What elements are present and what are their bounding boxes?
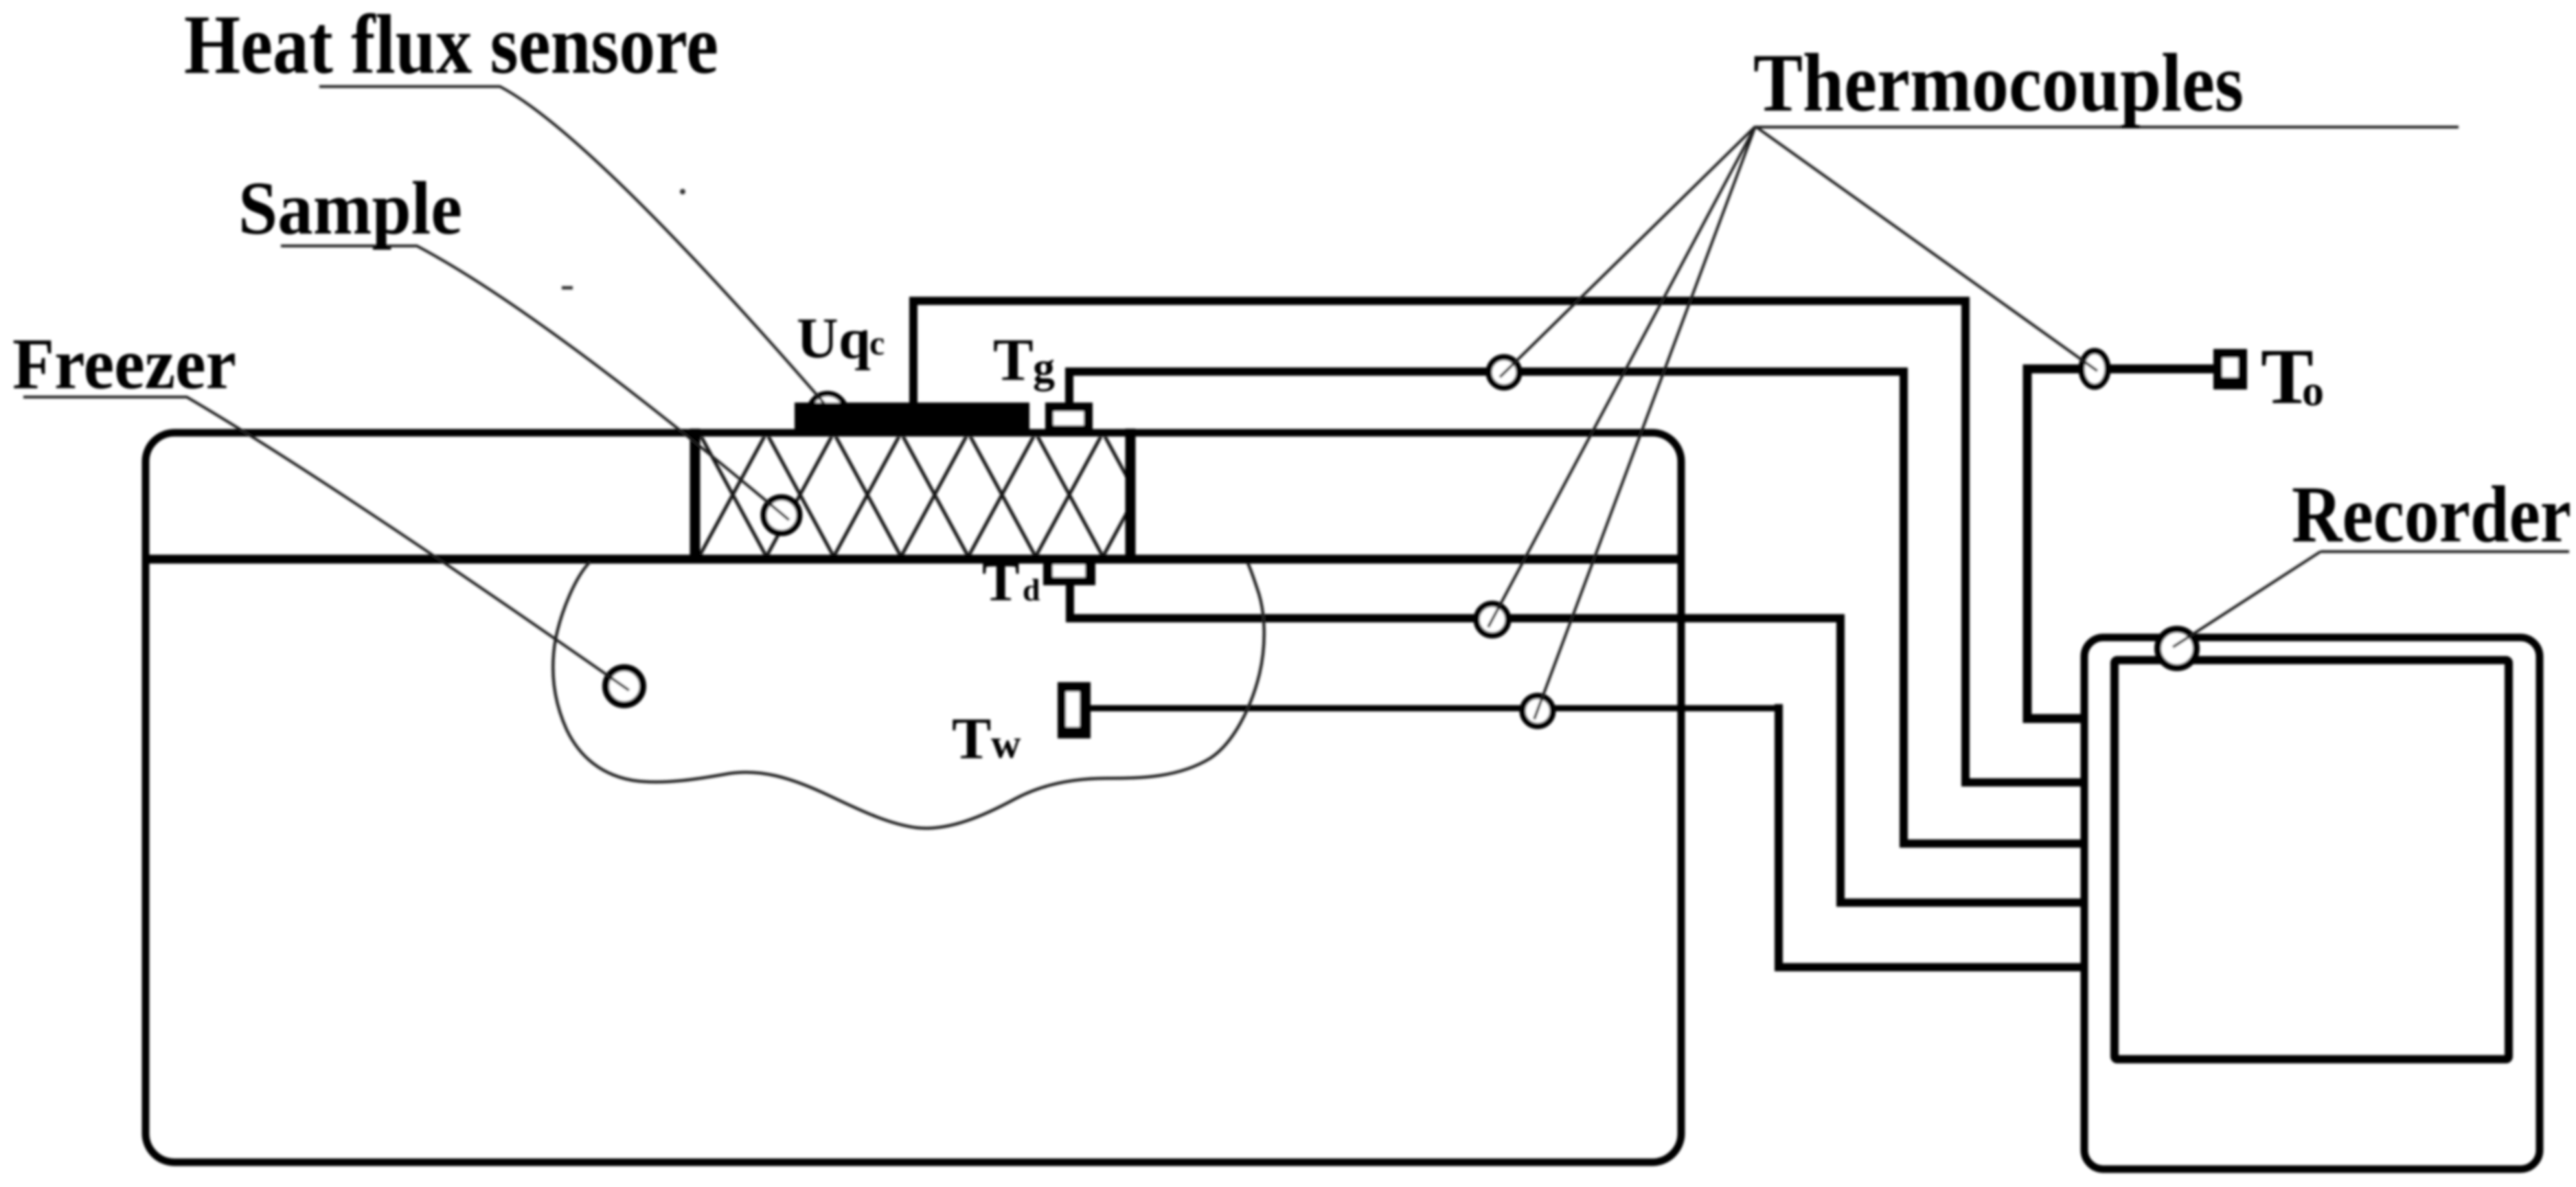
svg-text:Thermocouples: Thermocouples — [1753, 37, 2244, 129]
svg-text:d: d — [1023, 572, 1040, 607]
svg-text:Freezer: Freezer — [12, 324, 236, 404]
svg-text:U: U — [797, 306, 839, 370]
svg-text:T: T — [982, 550, 1020, 613]
svg-text:q: q — [839, 307, 871, 371]
svg-text:T: T — [952, 705, 991, 771]
svg-text:o: o — [2302, 366, 2324, 415]
svg-text:Sample: Sample — [238, 166, 462, 250]
svg-text:T: T — [993, 327, 1034, 394]
svg-text:w: w — [991, 721, 1021, 767]
svg-text:c: c — [869, 324, 885, 362]
svg-text:Heat flux sensore: Heat flux sensore — [184, 0, 718, 91]
svg-text:g: g — [1033, 343, 1055, 392]
svg-text:Recorder: Recorder — [2292, 469, 2571, 559]
